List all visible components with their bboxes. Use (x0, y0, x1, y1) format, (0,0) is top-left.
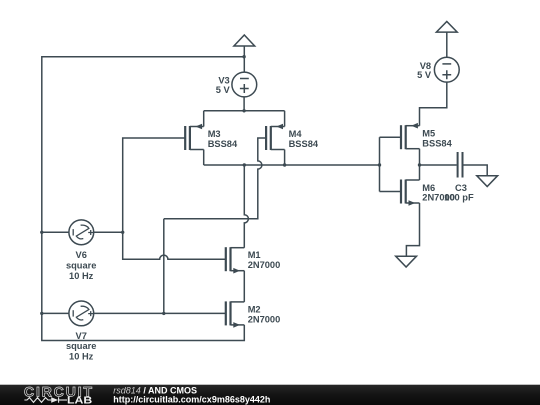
svg-text:M5: M5 (422, 128, 435, 138)
svg-text:2N7000: 2N7000 (248, 314, 281, 324)
svg-text:2N7000: 2N7000 (248, 260, 281, 270)
svg-text:LAB: LAB (67, 395, 92, 405)
svg-text:C3: C3 (455, 183, 467, 193)
svg-text:M2: M2 (248, 304, 261, 314)
svg-text:M4: M4 (289, 129, 303, 139)
svg-text:100 pF: 100 pF (444, 193, 474, 203)
svg-text:10 Hz: 10 Hz (69, 352, 94, 362)
svg-text:http://circuitlab.com/cx9m86s8: http://circuitlab.com/cx9m86s8y442h (113, 394, 270, 404)
svg-text:BSS84: BSS84 (208, 139, 238, 149)
svg-text:M6: M6 (422, 183, 435, 193)
svg-text:BSS84: BSS84 (289, 139, 319, 149)
svg-text:10 Hz: 10 Hz (69, 271, 94, 281)
svg-text:5 V: 5 V (417, 70, 432, 80)
svg-text:M3: M3 (208, 129, 221, 139)
svg-text:M1: M1 (248, 250, 261, 260)
svg-text:V3: V3 (218, 75, 229, 85)
svg-text:V6: V6 (76, 250, 87, 260)
svg-text:square: square (66, 341, 97, 351)
svg-text:5 V: 5 V (216, 85, 231, 95)
svg-text:V7: V7 (76, 331, 87, 341)
svg-text:square: square (66, 261, 97, 271)
svg-text:BSS84: BSS84 (422, 138, 452, 148)
